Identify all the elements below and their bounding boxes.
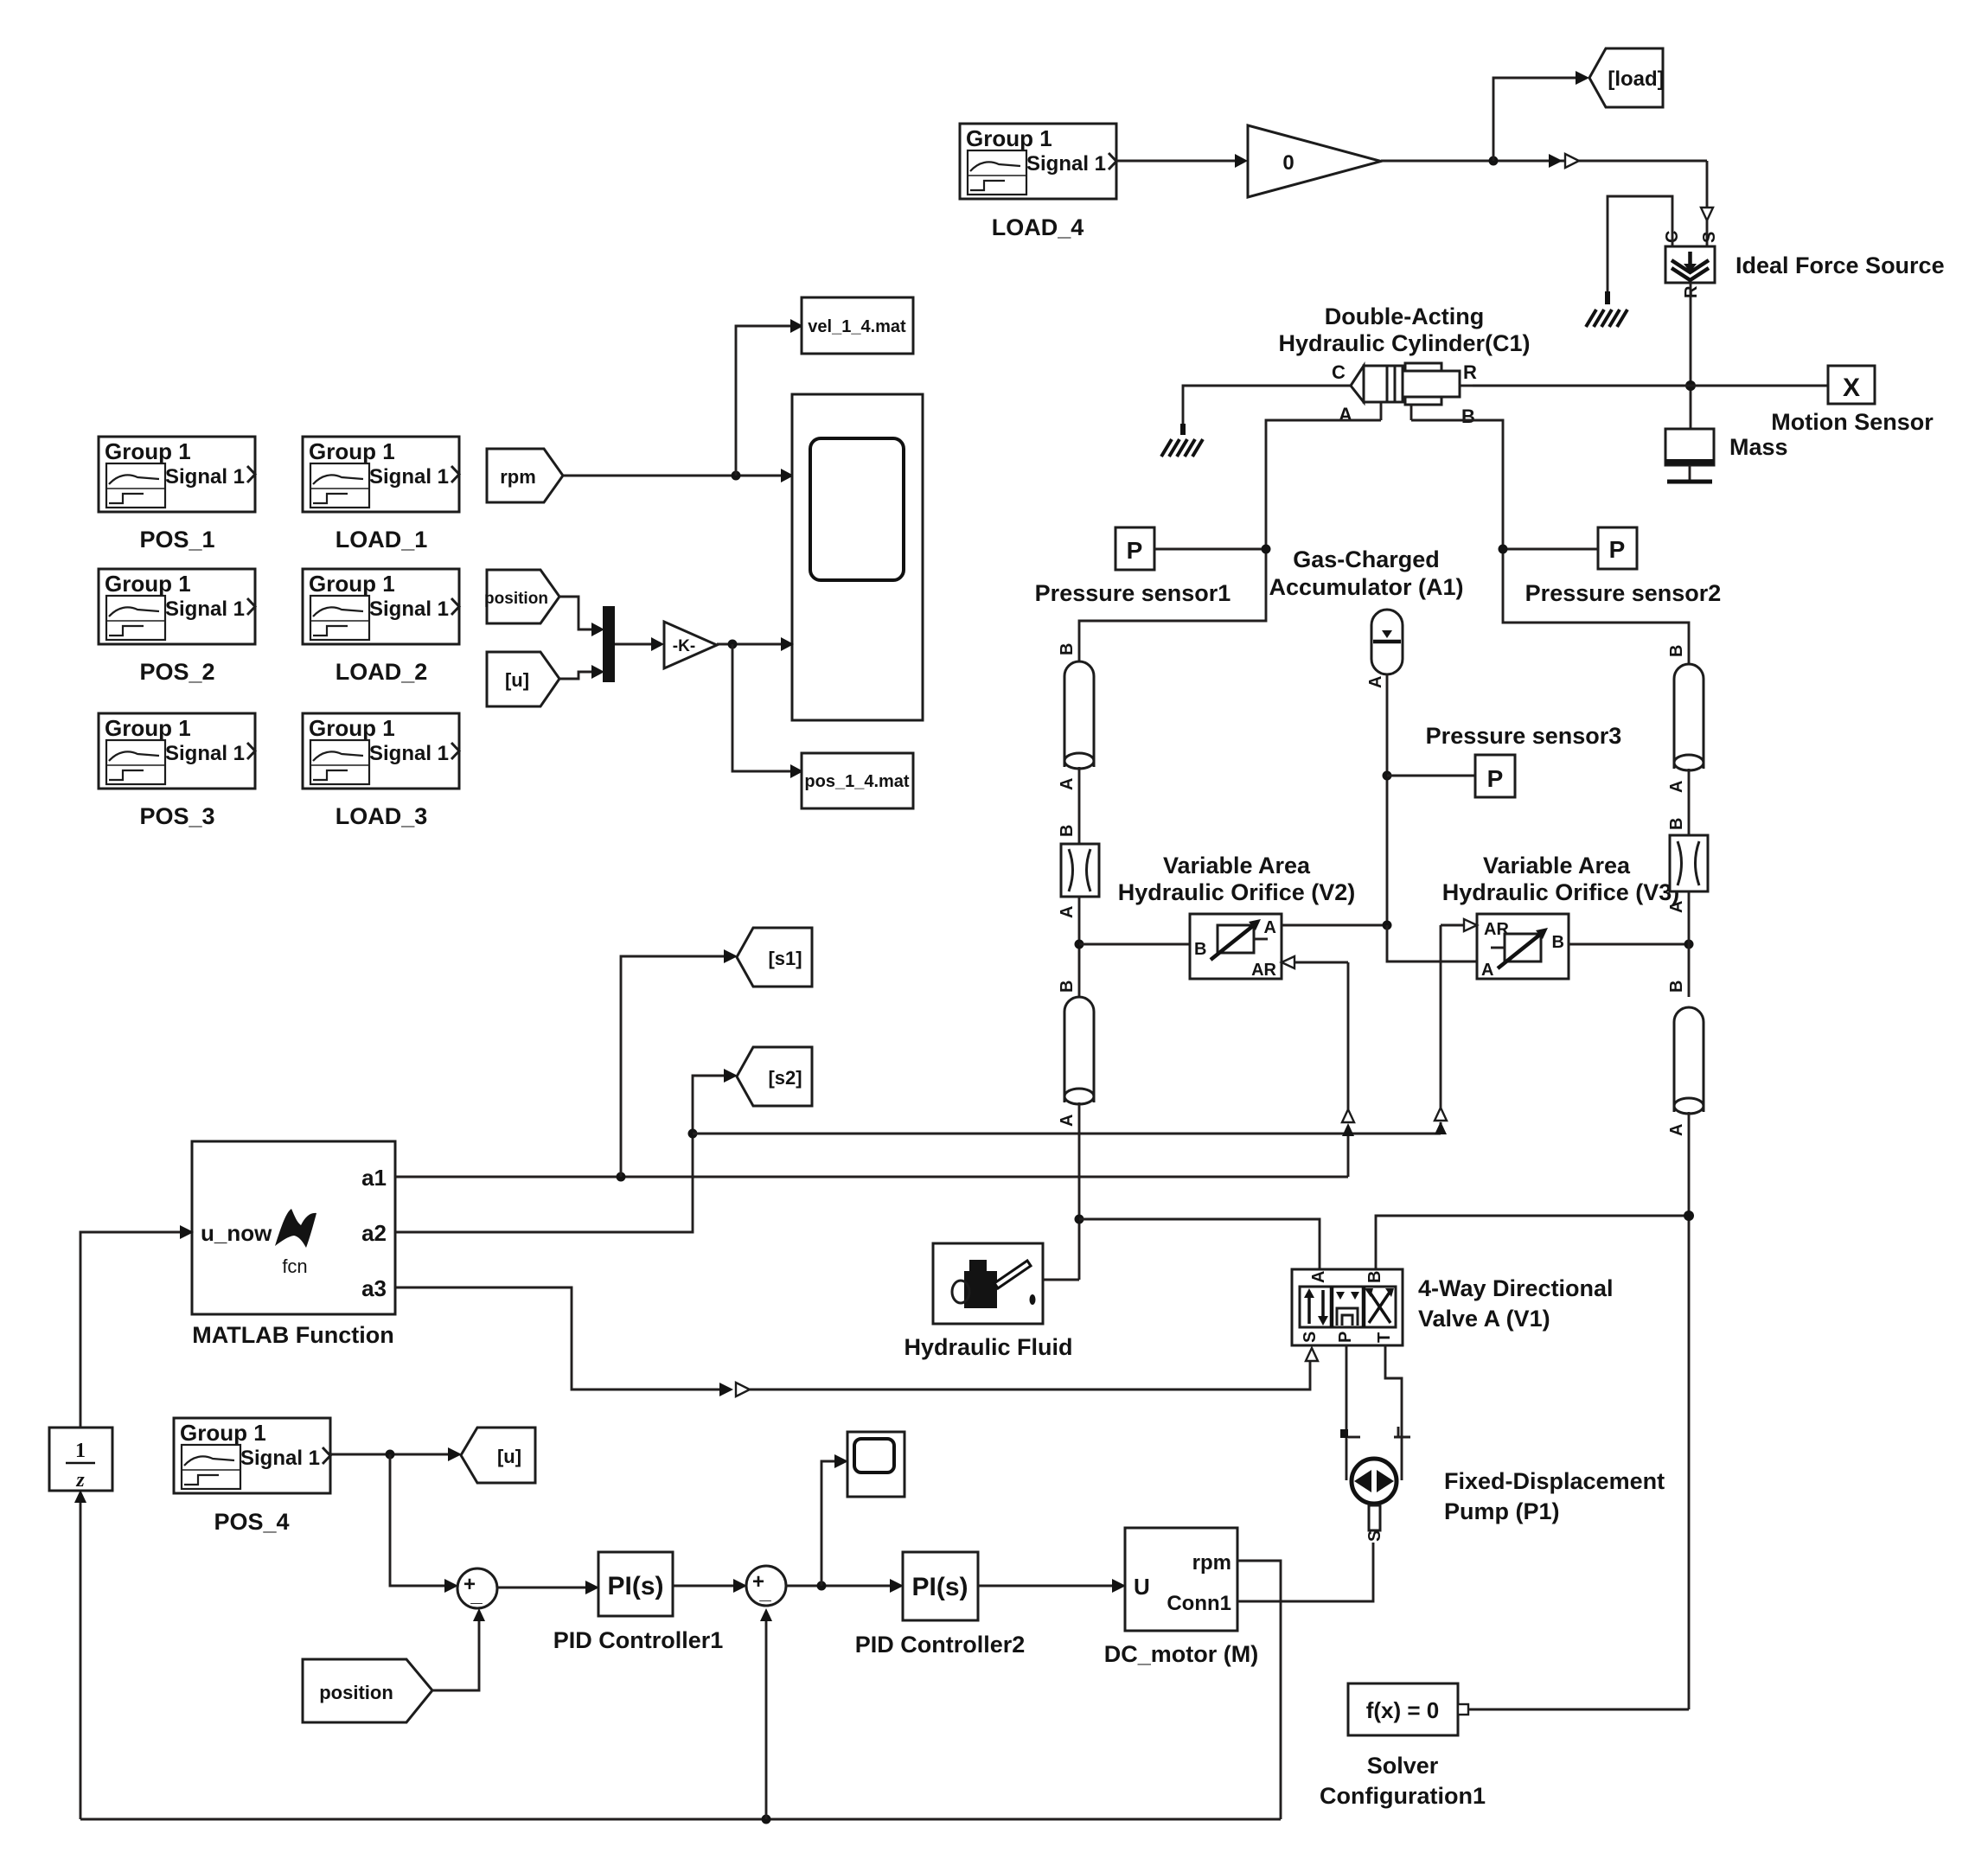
wire sum2 to PID2 bbox=[786, 1579, 904, 1593]
node valve A junction bbox=[1075, 1215, 1084, 1224]
node rod line junction bbox=[1685, 380, 1696, 391]
wire junction to V2 B bbox=[1079, 943, 1190, 946]
wire LOAD_4 to gain bbox=[1116, 154, 1248, 168]
svg-text:A: A bbox=[1366, 676, 1385, 688]
svg-text:B: B bbox=[1058, 825, 1077, 837]
svg-text:B: B bbox=[1058, 643, 1077, 655]
svg-text:B: B bbox=[1667, 981, 1686, 993]
wire a2 branch to V3 AR bbox=[693, 919, 1477, 1134]
unit delay 1/z bbox=[49, 1428, 112, 1492]
signal source LOAD_3 bbox=[303, 713, 459, 829]
svg-text:_: _ bbox=[470, 1583, 483, 1607]
svg-text:Fixed-Displacement: Fixed-Displacement bbox=[1444, 1468, 1665, 1494]
svg-text:Pump (P1): Pump (P1) bbox=[1444, 1498, 1560, 1524]
wire a1 to V2 AR bbox=[1282, 956, 1354, 1177]
svg-text:rpm: rpm bbox=[1192, 1551, 1231, 1575]
wire pipe3 to resistance2 bbox=[1688, 769, 1691, 835]
svg-text:B: B bbox=[1194, 940, 1206, 959]
wire junction to valve A bbox=[1079, 1219, 1320, 1269]
svg-text:POS_3: POS_3 bbox=[139, 803, 214, 829]
svg-text:pos_1_4.mat: pos_1_4.mat bbox=[804, 772, 910, 791]
svg-text:Hydraulic Orifice (V2): Hydraulic Orifice (V2) bbox=[1118, 879, 1356, 905]
node A-line sensor1 junction bbox=[1262, 545, 1271, 554]
scope2 bbox=[847, 1432, 905, 1497]
wire rpm to feedback bbox=[1237, 1561, 1281, 1819]
sum1 bbox=[457, 1568, 497, 1608]
svg-text:AR: AR bbox=[1251, 961, 1276, 980]
svg-text:0: 0 bbox=[1282, 151, 1294, 175]
svg-text:PI(s): PI(s) bbox=[607, 1572, 663, 1600]
svg-text:PI(s): PI(s) bbox=[911, 1573, 968, 1601]
svg-text:S: S bbox=[1700, 232, 1719, 243]
motion sensor X bbox=[1771, 366, 1934, 435]
svg-text:Mass: Mass bbox=[1729, 434, 1788, 460]
wire a3 to valve S bbox=[395, 1287, 1310, 1396]
wire piston rod line bbox=[1473, 385, 1828, 387]
wire left main vertical bbox=[1078, 1102, 1081, 1280]
svg-text:Double-Acting: Double-Acting bbox=[1325, 303, 1484, 329]
node POS_4 junction bbox=[386, 1450, 395, 1460]
wire branch to pos file bbox=[732, 644, 803, 778]
gain 0 bbox=[1248, 125, 1381, 197]
svg-text:P: P bbox=[1336, 1332, 1355, 1343]
svg-text:LOAD_2: LOAD_2 bbox=[336, 659, 428, 685]
wire feedback to sum2 bbox=[760, 1608, 772, 1819]
wire down to force source S port bbox=[1701, 161, 1713, 246]
accumulator A1 bbox=[1366, 610, 1403, 688]
svg-text:-K-: -K- bbox=[673, 637, 695, 655]
pressure sensor3 bbox=[1387, 723, 1621, 797]
svg-text:LOAD_4: LOAD_4 bbox=[992, 214, 1084, 240]
signal source POS_1 bbox=[99, 437, 255, 553]
pump right port tick bbox=[1394, 1427, 1410, 1437]
hydraulic fluid block bbox=[904, 1243, 1072, 1360]
wire a2 bbox=[395, 1069, 738, 1232]
Simulink-PS converter arrows bbox=[1549, 154, 1579, 168]
svg-text:Conn1: Conn1 bbox=[1167, 1592, 1231, 1615]
pid controller 2 bbox=[855, 1552, 1026, 1658]
svg-text:position: position bbox=[484, 590, 548, 608]
node valve B right junction bbox=[1684, 1211, 1694, 1221]
svg-text:u_now: u_now bbox=[201, 1220, 272, 1246]
svg-text:DC_motor (M): DC_motor (M) bbox=[1104, 1641, 1258, 1667]
node gain output junction bbox=[1489, 157, 1499, 166]
svg-text:[u]: [u] bbox=[505, 669, 529, 691]
wire branch to scope2 bbox=[821, 1454, 848, 1586]
mass block bbox=[1665, 429, 1788, 482]
svg-text:B: B bbox=[1365, 1271, 1384, 1283]
svg-text:A: A bbox=[1481, 961, 1493, 980]
svg-text:f(x) = 0: f(x) = 0 bbox=[1366, 1697, 1440, 1723]
svg-text:C: C bbox=[1332, 361, 1346, 383]
svg-text:[s2]: [s2] bbox=[768, 1067, 802, 1089]
op ideal force source U1 bbox=[1663, 231, 1945, 298]
svg-text:PID Controller2: PID Controller2 bbox=[855, 1632, 1026, 1658]
wire [u] to mux bbox=[559, 665, 604, 679]
wire PID1 to sum2 bbox=[673, 1579, 747, 1593]
svg-text:B: B bbox=[1552, 933, 1564, 952]
svg-text:Ideal Force Source: Ideal Force Source bbox=[1736, 252, 1945, 278]
svg-text:LOAD_3: LOAD_3 bbox=[336, 803, 428, 829]
svg-text:[u]: [u] bbox=[497, 1446, 521, 1467]
svg-text:A: A bbox=[1264, 918, 1276, 937]
svg-text:rpm: rpm bbox=[500, 466, 536, 488]
gain -K- bbox=[664, 622, 717, 668]
svg-text:[load]: [load] bbox=[1608, 67, 1664, 91]
node feedback junction bbox=[762, 1815, 771, 1824]
svg-text:POS_2: POS_2 bbox=[139, 659, 214, 685]
svg-text:A: A bbox=[1058, 778, 1077, 790]
wire bottom feedback line bbox=[80, 1818, 1281, 1821]
svg-text:PID Controller1: PID Controller1 bbox=[553, 1627, 724, 1653]
wire cylinder A to left pipe bbox=[1079, 420, 1381, 661]
wire sum1 to PID1 bbox=[497, 1581, 599, 1594]
sum2 bbox=[746, 1566, 786, 1606]
svg-text:_: _ bbox=[758, 1581, 771, 1604]
ground (right) bbox=[1586, 291, 1627, 327]
wire sensor2 bbox=[1503, 548, 1598, 551]
wire valve B to right line bbox=[1376, 1216, 1689, 1269]
pid controller 1 bbox=[553, 1552, 724, 1653]
goto tag [s2] bbox=[737, 1047, 812, 1106]
from tag position (bottom) bbox=[303, 1659, 432, 1722]
node a2 junction bbox=[688, 1129, 698, 1139]
svg-text:a1: a1 bbox=[361, 1165, 387, 1191]
dc motor block bbox=[1104, 1528, 1258, 1667]
svg-text:T: T bbox=[1375, 1332, 1394, 1343]
svg-text:fcn: fcn bbox=[282, 1255, 307, 1277]
svg-text:Accumulator (A1): Accumulator (A1) bbox=[1269, 574, 1463, 600]
svg-text:[s1]: [s1] bbox=[768, 948, 802, 969]
svg-text:Hydraulic Orifice (V3): Hydraulic Orifice (V3) bbox=[1442, 879, 1680, 905]
goto tag [s1] bbox=[737, 928, 812, 987]
svg-text:Variable Area: Variable Area bbox=[1163, 853, 1311, 878]
wire position to sum1 bbox=[432, 1608, 485, 1690]
local resistance 2 bbox=[1667, 818, 1708, 913]
wire right main vertical bbox=[1688, 1112, 1691, 1709]
svg-text:Motion Sensor: Motion Sensor bbox=[1771, 409, 1934, 435]
svg-text:A: A bbox=[1667, 1124, 1686, 1136]
svg-text:Hydraulic Fluid: Hydraulic Fluid bbox=[904, 1334, 1072, 1360]
matlab function block bbox=[192, 1141, 395, 1348]
svg-text:a2: a2 bbox=[361, 1220, 387, 1246]
svg-text:POS_4: POS_4 bbox=[214, 1509, 289, 1535]
pipe 3 (upper right) bbox=[1667, 645, 1704, 793]
ground (cylinder C) bbox=[1161, 424, 1203, 457]
pump P1 bbox=[1352, 1459, 1665, 1542]
scope block bbox=[792, 394, 923, 720]
goto tag [load] bbox=[1589, 48, 1665, 107]
cylinder C1 bbox=[1332, 361, 1477, 427]
pipe 1 (upper left) bbox=[1058, 643, 1094, 790]
svg-text:A: A bbox=[1058, 906, 1077, 918]
node left line V2 junction bbox=[1075, 940, 1084, 949]
node right line V3 junction bbox=[1684, 940, 1694, 949]
node sum2 out junction bbox=[817, 1581, 827, 1591]
svg-text:vel_1_4.mat: vel_1_4.mat bbox=[808, 317, 906, 336]
wire rpm to scope bbox=[563, 469, 794, 482]
pressure sensor1 bbox=[1035, 527, 1231, 606]
mux bbox=[603, 606, 615, 682]
label double-acting cylinder bbox=[1278, 303, 1530, 356]
svg-text:1: 1 bbox=[75, 1440, 86, 1462]
svg-text:Solver: Solver bbox=[1367, 1753, 1439, 1779]
wire POS_4 to goto u bbox=[330, 1447, 462, 1461]
signal source POS_3 bbox=[99, 713, 255, 829]
svg-text:A: A bbox=[1667, 901, 1686, 913]
svg-text:R: R bbox=[1463, 361, 1477, 383]
wire force source R down bbox=[1690, 283, 1692, 429]
wire 1/z output to u_now bbox=[80, 1225, 194, 1428]
svg-text:MATLAB Function: MATLAB Function bbox=[192, 1322, 393, 1348]
svg-text:B: B bbox=[1667, 818, 1686, 830]
svg-text:Pressure sensor2: Pressure sensor2 bbox=[1525, 580, 1722, 606]
node sensor3 junction bbox=[1383, 771, 1392, 781]
svg-text:S: S bbox=[1301, 1332, 1320, 1343]
svg-text:z: z bbox=[75, 1469, 85, 1492]
wire valve P to pump bbox=[1346, 1345, 1348, 1480]
wire resistance2 to pipe4 bbox=[1688, 891, 1691, 997]
wire pipe1 to resistance1 bbox=[1078, 767, 1081, 844]
label accumulator bbox=[1269, 546, 1463, 600]
valve V1 bbox=[1292, 1269, 1614, 1345]
label V3 bbox=[1442, 853, 1680, 905]
node B-line sensor2 junction bbox=[1499, 545, 1508, 554]
wire V3 B to right line bbox=[1569, 943, 1689, 946]
node rpm junction bbox=[732, 471, 741, 481]
from tag [u] bbox=[487, 652, 559, 706]
node a1 junction bbox=[617, 1172, 626, 1182]
svg-text:Valve A (V1): Valve A (V1) bbox=[1418, 1306, 1550, 1332]
signal source POS_4 bbox=[174, 1418, 330, 1535]
pressure sensor2 bbox=[1525, 527, 1722, 606]
svg-text:A: A bbox=[1058, 1115, 1077, 1127]
svg-text:P: P bbox=[1487, 765, 1504, 792]
wire bottom feedback into 1/z bbox=[74, 1490, 86, 1819]
svg-text:position: position bbox=[319, 1682, 393, 1703]
pump left port tick bbox=[1340, 1429, 1360, 1438]
pipe 2 (lower left) bbox=[1058, 981, 1094, 1127]
signal source LOAD_2 bbox=[303, 569, 459, 685]
solver configuration block bbox=[1320, 1683, 1486, 1809]
wire hydraulic fluid to left line bbox=[1043, 1279, 1079, 1281]
from tag rpm bbox=[487, 449, 563, 502]
goto tag [u] bbox=[461, 1428, 535, 1483]
svg-text:4-Way Directional: 4-Way Directional bbox=[1418, 1275, 1614, 1301]
signal source LOAD_4 bbox=[960, 124, 1116, 240]
svg-text:B: B bbox=[1667, 645, 1686, 657]
svg-text:U: U bbox=[1134, 1574, 1150, 1600]
wire V2 A to accumulator line bbox=[1282, 924, 1387, 927]
svg-text:B: B bbox=[1058, 981, 1077, 993]
wire cylinder B to right pipe bbox=[1411, 420, 1689, 664]
wire junction to V3 A bbox=[1387, 925, 1477, 961]
wire cylinder C to ground bbox=[1183, 386, 1351, 431]
svg-text:Gas-Charged: Gas-Charged bbox=[1293, 546, 1440, 572]
valve S input arrow bbox=[1306, 1348, 1318, 1361]
svg-text:A: A bbox=[1667, 781, 1686, 793]
wire force source C to ground bbox=[1608, 196, 1672, 300]
label V2 bbox=[1118, 853, 1356, 905]
svg-text:Pressure sensor1: Pressure sensor1 bbox=[1035, 580, 1231, 606]
wire Conn1 to pump shaft bbox=[1237, 1543, 1373, 1601]
wire POS_4 branch to sum1 bbox=[390, 1454, 458, 1593]
wire resistance1 to pipe2 bbox=[1078, 897, 1081, 997]
node V2A junction bbox=[1383, 921, 1392, 930]
orifice V3 bbox=[1477, 914, 1569, 980]
wire valve T to pump bbox=[1385, 1345, 1402, 1480]
svg-text:S: S bbox=[1365, 1530, 1384, 1542]
svg-text:Hydraulic Cylinder(C1): Hydraulic Cylinder(C1) bbox=[1278, 330, 1530, 356]
svg-text:X: X bbox=[1843, 374, 1860, 402]
svg-text:POS_1: POS_1 bbox=[139, 527, 214, 553]
svg-text:A: A bbox=[1309, 1271, 1328, 1283]
wire PID2 to DC motor bbox=[978, 1579, 1126, 1593]
orifice V2 bbox=[1190, 914, 1282, 980]
svg-text:B: B bbox=[1461, 406, 1475, 427]
wire a1 branch to s1 bbox=[621, 949, 738, 1177]
wire position to mux bbox=[559, 597, 604, 636]
svg-text:Pressure sensor3: Pressure sensor3 bbox=[1426, 723, 1622, 749]
wire rpm branch to vel file bbox=[736, 319, 803, 476]
wire gain output bbox=[1381, 160, 1707, 163]
svg-text:LOAD_1: LOAD_1 bbox=[336, 527, 428, 553]
svg-text:a3: a3 bbox=[361, 1275, 387, 1301]
wire gain to scope bbox=[717, 637, 794, 651]
to-file pos_1_4.mat bbox=[802, 753, 913, 808]
svg-text:Configuration1: Configuration1 bbox=[1320, 1783, 1486, 1809]
svg-text:P: P bbox=[1609, 536, 1626, 563]
from tag position bbox=[484, 570, 559, 623]
wire mux to gain bbox=[615, 637, 664, 651]
svg-text:Variable Area: Variable Area bbox=[1483, 853, 1631, 878]
wire a1 bbox=[395, 1176, 1348, 1179]
signal source LOAD_1 bbox=[303, 437, 459, 553]
wire sensor1 bbox=[1154, 548, 1266, 551]
signal source POS_2 bbox=[99, 569, 255, 685]
wire to goto load bbox=[1493, 71, 1589, 161]
local resistance 1 bbox=[1058, 825, 1099, 918]
node gain-K junction bbox=[728, 640, 738, 649]
to-file vel_1_4.mat bbox=[802, 297, 913, 354]
pipe 4 (lower right) bbox=[1667, 981, 1704, 1136]
svg-text:A: A bbox=[1339, 404, 1352, 425]
wire solver to right line bbox=[1468, 1709, 1689, 1711]
svg-text:P: P bbox=[1127, 537, 1143, 564]
wire accumulator down bbox=[1386, 674, 1389, 925]
